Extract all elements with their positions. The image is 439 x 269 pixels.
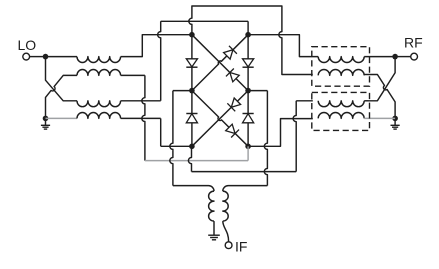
terminal IF <box>225 242 232 249</box>
transformer T4 winding b (RF) <box>318 113 364 119</box>
wire T1b down to bus <box>121 75 145 160</box>
wire LO terminal to node <box>30 56 43 58</box>
node LO ground (junction dot) <box>43 116 49 122</box>
diode D3 (left rail lower, cathode up) <box>186 91 197 147</box>
wire T2b corner down <box>160 118 162 146</box>
dashed box transformer T3 <box>312 47 370 86</box>
transformer T1 winding a (LO) <box>77 57 121 63</box>
wire LO ground to T2 winding (gray) <box>46 117 78 119</box>
wire T2a up to node B <box>121 100 161 102</box>
node E (bottom-left, junction dot) <box>189 144 195 150</box>
transformer T1 winding b (LO) <box>77 70 121 76</box>
wire top loop (node A to RF T3b) <box>189 6 313 75</box>
wire node B to RF T3a <box>248 35 318 57</box>
transformer T5 winding a (IF, left) <box>209 191 214 221</box>
wire RF node to terminal <box>395 56 411 58</box>
diode D8 (on D-E diagonal, cathode toward E) <box>227 98 240 111</box>
label RF <box>404 35 423 51</box>
wire node B riser <box>247 21 249 34</box>
wire RF node down (crossover arm to T4a) <box>369 57 396 101</box>
ground symbol IF <box>208 235 220 240</box>
diode D7 (on C-F diagonal, cathode toward F) <box>226 124 239 137</box>
svg-text:IF: IF <box>235 238 247 254</box>
transformer T3 winding b (RF) <box>318 70 364 76</box>
node LO (junction dot) <box>43 54 49 60</box>
wire T4a riser down to node E run <box>293 101 296 172</box>
wire IF right winding top lead <box>223 186 268 192</box>
terminal LO <box>23 53 30 60</box>
transformer T2 winding a (LO) <box>77 101 121 107</box>
diode D5 (on A-D diagonal, cathode toward A) <box>226 69 239 82</box>
label LO <box>18 37 37 53</box>
wire T4a lead <box>364 100 368 102</box>
diode D2 (right rail upper, cathode down) <box>243 35 254 91</box>
wire node E to T4a (bottom run, hopped by IF riser) <box>192 171 297 173</box>
node F (bottom-right, junction dot) <box>245 144 251 150</box>
diode D6 (on B-C diagonal, cathode toward B) <box>224 46 237 59</box>
gray bus node F to T1b/T2 (gray) <box>145 146 248 160</box>
diode D1 (left rail upper, cathode down) <box>186 35 197 91</box>
wire T2a top run to node B <box>161 20 248 22</box>
wire T2b into node E <box>161 145 192 147</box>
wire diagonal node B to node C (hops A-D) <box>192 35 248 91</box>
wire T3a to RF node <box>364 56 395 58</box>
label IF <box>235 238 247 254</box>
ground symbol RF <box>391 121 400 129</box>
wire IF left winding top lead <box>173 186 214 192</box>
node D (mid-right, junction dot) <box>245 88 251 94</box>
wire LO node to T1 winding <box>46 56 78 58</box>
wire T2a riser <box>158 21 161 101</box>
wire T3b lead <box>364 74 368 76</box>
node B (top-right, junction dot) <box>245 32 251 38</box>
wire diagonal node D to node E <box>192 91 248 147</box>
wire T2b to node E <box>121 117 161 119</box>
node A (top-left, junction dot) <box>189 32 195 38</box>
wire node E down to IF run <box>188 146 191 171</box>
wire LO node down (crossover arm) <box>46 57 78 101</box>
wire RF ground crossover arm (hops over RF arm) <box>369 75 396 119</box>
diode D4 (right rail lower, cathode up) <box>243 91 254 147</box>
wire T1a to node A <box>121 35 192 57</box>
wire diagonal node C to node F (hops D-E) <box>192 91 248 147</box>
transformer T4 winding a (RF) <box>318 101 364 107</box>
svg-text:LO: LO <box>18 37 37 53</box>
node RF ground (junction dot) <box>392 116 398 122</box>
wire diagonal node A to node D <box>192 35 248 91</box>
wire node C to IF transformer (left) <box>170 91 192 186</box>
node C (mid-left, junction dot) <box>189 88 195 94</box>
wire T4b to node F <box>248 119 313 147</box>
wire T4b to RF ground (gray) <box>364 117 395 119</box>
dashed box transformer T4 <box>312 92 370 130</box>
wire LO ground crossover arm (hops over LO arm) <box>46 75 78 118</box>
wire T4a left lead to riser <box>296 100 313 102</box>
svg-text:RF: RF <box>404 35 423 51</box>
transformer T2 winding b (LO) <box>77 113 121 119</box>
wire node D to IF transformer (right) <box>248 91 267 186</box>
terminal RF <box>411 53 418 60</box>
transformer T5 winding b (IF, right) <box>223 191 228 221</box>
wire IF left winding to ground <box>213 221 215 235</box>
wire IF right winding to terminal <box>223 221 229 242</box>
ground symbol LO <box>41 121 50 129</box>
transformer T3 winding a (RF) <box>318 57 364 63</box>
node RF (junction dot) <box>392 54 398 60</box>
